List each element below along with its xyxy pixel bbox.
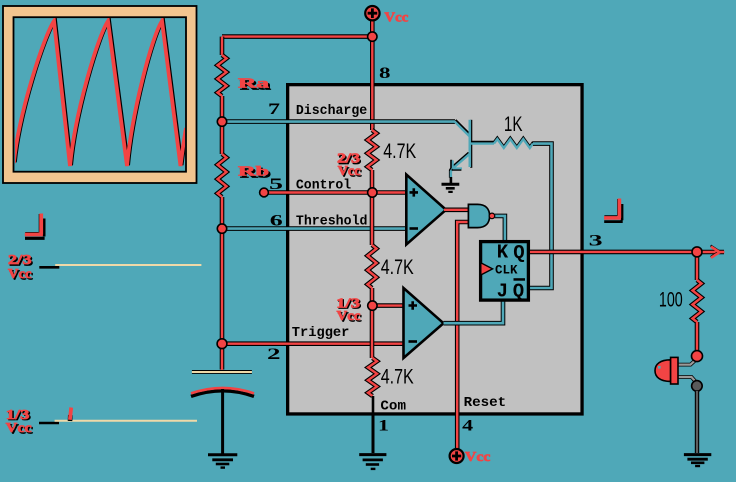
svg-text:4.7K: 4.7K bbox=[383, 140, 416, 163]
svg-text:Trigger: Trigger bbox=[292, 326, 350, 341]
LED leads bbox=[678, 360, 697, 383]
label 1/3 Vcc (inside IC) bbox=[336, 296, 362, 325]
pin label 5 bbox=[269, 176, 283, 193]
resistor 100 bbox=[693, 280, 702, 322]
svg-text:Vcc: Vcc bbox=[465, 450, 491, 465]
wire transistor base to 1K bbox=[471, 142, 494, 144]
svg-text:Vcc: Vcc bbox=[337, 309, 361, 324]
svg-text:Com: Com bbox=[380, 400, 406, 415]
ground (capacitor) bbox=[208, 455, 237, 468]
label Reset bbox=[464, 396, 507, 411]
scope frame inner bbox=[14, 17, 187, 172]
Vcc supply symbol bottom (reset) bbox=[450, 449, 464, 463]
svg-text:Vcc: Vcc bbox=[6, 421, 32, 436]
wire chain mid1 bbox=[370, 170, 375, 245]
ground (LED) bbox=[684, 455, 711, 466]
wire Vcc down to divider chain bbox=[370, 20, 375, 130]
label 2/3 Vcc (inside IC) bbox=[337, 152, 362, 181]
svg-text:Control: Control bbox=[296, 178, 351, 193]
label 1/3 Vcc (left) bbox=[6, 408, 33, 438]
waveform capacitor ramp trace bbox=[10, 20, 188, 166]
svg-text:Q: Q bbox=[513, 280, 524, 302]
resistor Rb bbox=[218, 154, 227, 197]
wire threshold (pin6) bbox=[222, 226, 406, 231]
wire pin1 to ground bbox=[372, 413, 375, 453]
svg-text:1K: 1K bbox=[504, 113, 523, 136]
junction node threshold bbox=[217, 224, 226, 233]
wire trigger comparator to J bbox=[444, 302, 504, 324]
transistor collector diagonal bbox=[455, 120, 470, 136]
svg-text:4: 4 bbox=[462, 417, 473, 434]
wire comparator output to gate bbox=[444, 208, 468, 213]
spike tick on 1/3 line bbox=[70, 408, 71, 422]
nand gate bbox=[468, 204, 489, 227]
resistor 1K bbox=[494, 137, 533, 148]
svg-text:Q: Q bbox=[513, 242, 524, 264]
label Control bbox=[296, 178, 351, 193]
wire control (pin5) bbox=[264, 190, 406, 195]
wheat 1/3 Vcc level line bbox=[55, 420, 197, 422]
svg-text:J: J bbox=[497, 280, 508, 302]
wire left rail down to capacitor bbox=[220, 197, 225, 371]
svg-text:Vcc: Vcc bbox=[338, 164, 361, 179]
step symbol (left, 2/3 Vcc marker) bbox=[25, 214, 45, 239]
node control pin5 bbox=[260, 188, 269, 197]
step symbol (output) bbox=[604, 199, 623, 222]
pin label 8 bbox=[379, 65, 391, 82]
wire common (pin1) inside bbox=[372, 396, 375, 413]
label Threshold bbox=[296, 215, 368, 230]
svg-text:Discharge: Discharge bbox=[296, 104, 367, 119]
junction node 2/3 tap bbox=[368, 188, 377, 197]
flip-flop CLK label bbox=[495, 262, 518, 277]
label 4.7K middle bbox=[381, 256, 414, 279]
label 4.7K top bbox=[383, 140, 416, 163]
label 100 bbox=[659, 288, 683, 311]
op-amp trigger comparator bbox=[404, 288, 444, 358]
ground (pin1) bbox=[359, 455, 386, 469]
svg-text:CLK: CLK bbox=[495, 262, 518, 277]
wire discharge (pin7) with transistor collector bbox=[222, 119, 455, 124]
junction node output bbox=[692, 247, 702, 257]
label Vcc bottom bbox=[465, 450, 491, 465]
svg-text:4.7K: 4.7K bbox=[381, 256, 414, 279]
label Rb bbox=[238, 165, 271, 182]
pin label 6 bbox=[270, 212, 283, 229]
label 4.7K bottom bbox=[381, 365, 414, 388]
LED cathode node dot bbox=[692, 381, 703, 392]
transistor discharge: base bar bbox=[470, 120, 472, 168]
pin label 4 bbox=[462, 417, 473, 434]
transistor emitter ground bbox=[442, 177, 460, 192]
op-amp threshold comparator bbox=[406, 175, 446, 245]
resistor Ra bbox=[218, 55, 227, 96]
svg-text:Reset: Reset bbox=[464, 396, 507, 411]
svg-text:6: 6 bbox=[270, 212, 283, 229]
svg-text:K: K bbox=[497, 242, 509, 264]
pin label 3 bbox=[589, 232, 603, 249]
pin label 7 bbox=[268, 101, 280, 118]
black dash at 2/3 level bbox=[39, 266, 59, 269]
svg-text:4.7K: 4.7K bbox=[381, 365, 414, 388]
black dash at 1/3 level bbox=[39, 422, 59, 425]
wire output down to 100 resistor bbox=[695, 252, 700, 280]
junction node Vcc rail bbox=[368, 32, 377, 41]
divider resistor 4.7K bottom bbox=[368, 358, 377, 396]
scope frame outer bbox=[3, 6, 197, 183]
junction node 1/3 tap bbox=[368, 301, 377, 310]
IC 555 body bbox=[288, 85, 582, 414]
wire trigger (pin2) bbox=[222, 341, 406, 346]
junction node LED anode bbox=[692, 351, 703, 362]
wheat 2/3 Vcc level line bbox=[55, 264, 201, 266]
wire capacitor to ground bbox=[221, 389, 224, 454]
wire Vcc rail horizontal bbox=[222, 34, 372, 39]
flip-flop labels K Q bbox=[497, 242, 525, 264]
label Com bbox=[380, 400, 406, 415]
svg-text:Rb: Rb bbox=[238, 165, 269, 180]
junction node discharge bbox=[217, 117, 226, 126]
label Vcc top bbox=[384, 11, 408, 26]
flip-flop labels J Qbar bbox=[497, 278, 525, 302]
capacitor top plate bbox=[192, 371, 252, 374]
svg-text:Ra: Ra bbox=[238, 77, 269, 92]
wire left rail top bbox=[220, 37, 225, 55]
output arrow bbox=[697, 245, 724, 257]
wire chain mid2 bbox=[370, 288, 375, 358]
label 2/3 Vcc (left) bbox=[8, 253, 33, 283]
svg-text:8: 8 bbox=[379, 65, 391, 82]
label 1K bbox=[504, 113, 523, 136]
flip-flop box bbox=[481, 242, 529, 301]
wire 1/3 tap to comparator bbox=[372, 303, 404, 308]
svg-text:Vcc: Vcc bbox=[384, 11, 408, 26]
label Trigger bbox=[292, 326, 350, 341]
svg-text:2/3: 2/3 bbox=[8, 253, 32, 268]
Vcc supply symbol top bbox=[365, 6, 379, 20]
svg-text:1: 1 bbox=[378, 417, 389, 434]
divider resistor 4.7K top bbox=[368, 130, 377, 170]
junction node trigger bbox=[217, 339, 227, 349]
pin label 1 bbox=[378, 417, 389, 434]
LED body bbox=[655, 357, 678, 384]
divider resistor 4.7K middle bbox=[368, 245, 377, 288]
transistor emitter with arrow bbox=[450, 153, 470, 178]
svg-text:7: 7 bbox=[268, 101, 280, 118]
wire 1K to Q-bar bbox=[530, 144, 552, 288]
wire 100 to LED node bbox=[695, 322, 700, 351]
gate output bubble bbox=[489, 213, 495, 219]
wire output Q (pin3) bbox=[530, 250, 697, 255]
svg-text:Vcc: Vcc bbox=[8, 267, 32, 282]
svg-text:Threshold: Threshold bbox=[296, 215, 368, 230]
capacitor bottom plate bbox=[191, 388, 254, 397]
wire left rail between Ra and Rb bbox=[220, 96, 225, 154]
label Ra bbox=[238, 77, 271, 94]
pin label 2 bbox=[267, 346, 281, 363]
wire LED to ground bbox=[695, 391, 699, 453]
svg-text:5: 5 bbox=[269, 176, 283, 193]
label Discharge bbox=[296, 104, 367, 119]
wire reset (pin4) vertical bbox=[457, 222, 468, 449]
wire gate output to K bbox=[495, 216, 505, 240]
flip-flop clock triangle bbox=[481, 263, 493, 275]
svg-text:3: 3 bbox=[589, 232, 603, 249]
svg-text:100: 100 bbox=[659, 288, 683, 311]
svg-text:2: 2 bbox=[267, 346, 281, 363]
